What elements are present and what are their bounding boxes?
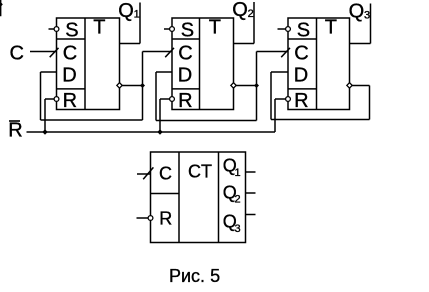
svg-text:D: D	[294, 65, 308, 87]
svg-text:R: R	[294, 90, 308, 112]
svg-text:Рис. 5: Рис. 5	[169, 266, 220, 286]
svg-text:S: S	[297, 19, 310, 41]
svg-text:T: T	[93, 17, 105, 39]
svg-text:C: C	[178, 43, 192, 65]
svg-text:C: C	[294, 43, 308, 65]
svg-text:S: S	[65, 19, 78, 41]
svg-text:R: R	[178, 90, 192, 112]
svg-text:R: R	[8, 120, 22, 142]
svg-text:CT: CT	[188, 162, 212, 182]
svg-text:D: D	[178, 65, 192, 87]
svg-text:R: R	[63, 90, 77, 112]
svg-text:R: R	[159, 209, 172, 229]
svg-text:2: 2	[235, 194, 241, 206]
svg-text:C: C	[159, 164, 172, 184]
svg-text:1: 1	[235, 167, 241, 179]
svg-text:T: T	[209, 17, 221, 39]
svg-text:T: T	[325, 17, 337, 39]
svg-text:C: C	[10, 43, 24, 65]
svg-text:1: 1	[134, 9, 140, 21]
svg-text:S: S	[181, 19, 194, 41]
svg-text:2: 2	[248, 8, 254, 20]
svg-text:D: D	[62, 65, 76, 87]
svg-text:Q: Q	[118, 0, 134, 22]
svg-text:3: 3	[364, 10, 370, 22]
svg-text:Q: Q	[232, 0, 248, 21]
svg-text:C: C	[63, 43, 77, 65]
svg-text:Q: Q	[349, 1, 365, 23]
svg-text:3: 3	[235, 223, 241, 235]
